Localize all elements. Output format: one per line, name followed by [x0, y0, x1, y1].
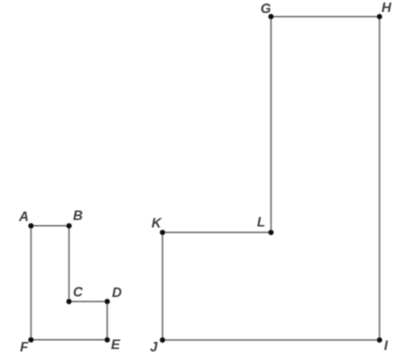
node I [377, 337, 382, 342]
node A [28, 223, 33, 228]
svg-text:I: I [384, 338, 388, 353]
wire FA [30, 226, 32, 340]
node E [105, 337, 110, 342]
wire BC [68, 226, 70, 302]
svg-text:D: D [112, 285, 122, 300]
node J [160, 337, 165, 342]
svg-text:E: E [111, 337, 121, 352]
node D [105, 299, 110, 304]
node K [160, 230, 165, 235]
wire GH [271, 16, 380, 18]
svg-text:L: L [257, 215, 265, 230]
node F [28, 337, 33, 342]
wire CD [69, 301, 107, 303]
svg-text:J: J [150, 340, 158, 355]
svg-text:A: A [18, 209, 29, 224]
node C [66, 299, 71, 304]
wire LG [270, 17, 272, 233]
svg-text:F: F [20, 340, 29, 355]
svg-text:B: B [73, 208, 83, 223]
svg-text:G: G [261, 1, 272, 16]
svg-text:K: K [152, 216, 163, 231]
node B [66, 223, 71, 228]
svg-text:C: C [73, 285, 83, 300]
wire JK [162, 232, 164, 340]
wire AB [31, 225, 69, 227]
wire KL [163, 231, 272, 233]
node H [377, 14, 382, 19]
wire HI [379, 17, 381, 340]
wire DE [106, 302, 108, 340]
wire IJ [163, 339, 380, 341]
svg-text:H: H [382, 0, 392, 15]
wire EF [31, 339, 107, 341]
node L [268, 230, 273, 235]
node G [268, 14, 273, 19]
